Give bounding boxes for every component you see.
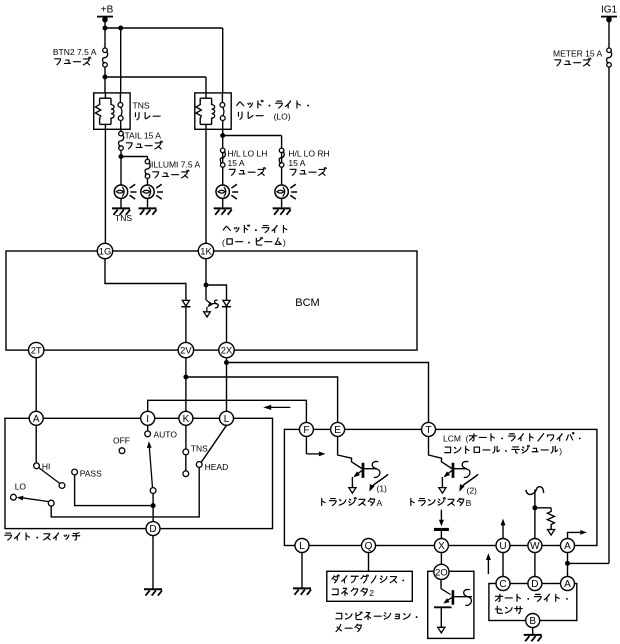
- svg-text:): ): [559, 446, 562, 456]
- svg-text:W: W: [530, 541, 540, 552]
- svg-text:OFF: OFF: [113, 436, 130, 446]
- svg-text:D: D: [531, 579, 538, 590]
- svg-text:TAIL 15 A: TAIL 15 A: [125, 130, 162, 140]
- svg-text:H/L LO RH: H/L LO RH: [288, 149, 329, 159]
- svg-text:F: F: [303, 425, 309, 436]
- svg-text:AUTO: AUTO: [154, 429, 178, 439]
- svg-text:2X: 2X: [221, 344, 233, 355]
- svg-text:): ): [283, 238, 286, 248]
- svg-text:I: I: [146, 414, 149, 425]
- svg-text:1K: 1K: [200, 245, 212, 256]
- svg-text:X: X: [438, 541, 445, 552]
- svg-text:15 A: 15 A: [288, 158, 305, 168]
- svg-text:H/L LO LH: H/L LO LH: [228, 149, 268, 159]
- svg-text:(LO): (LO): [274, 112, 291, 122]
- svg-text:Q: Q: [365, 541, 373, 552]
- svg-text:2T: 2T: [31, 344, 42, 355]
- svg-text:ILLUMI 7.5 A: ILLUMI 7.5 A: [151, 160, 200, 170]
- svg-text:A: A: [33, 414, 40, 425]
- svg-text:C: C: [499, 579, 506, 590]
- svg-text:15 A: 15 A: [228, 158, 245, 168]
- svg-text:B: B: [466, 498, 472, 508]
- svg-text:2: 2: [369, 588, 374, 598]
- svg-text:A: A: [564, 579, 571, 590]
- svg-text:1G: 1G: [99, 245, 112, 256]
- svg-text:(1): (1): [377, 484, 388, 494]
- svg-text:U: U: [499, 541, 506, 552]
- svg-text:(: (: [222, 238, 225, 248]
- svg-text:BCM: BCM: [295, 297, 319, 309]
- svg-text:METER 15 A: METER 15 A: [553, 49, 602, 59]
- svg-text:2V: 2V: [180, 344, 192, 355]
- svg-text:LO: LO: [15, 481, 27, 491]
- svg-text:IG1: IG1: [601, 5, 618, 16]
- svg-text:D: D: [149, 524, 156, 535]
- svg-text:A: A: [377, 498, 383, 508]
- svg-text:TNS: TNS: [133, 101, 150, 111]
- svg-text:T: T: [425, 425, 431, 436]
- svg-text:K: K: [183, 414, 190, 425]
- svg-text:A: A: [564, 541, 571, 552]
- svg-text:HI: HI: [42, 462, 51, 472]
- svg-text:HEAD: HEAD: [205, 462, 229, 472]
- svg-text:B: B: [529, 616, 536, 627]
- svg-text:L: L: [224, 414, 230, 425]
- svg-text:TNS: TNS: [191, 443, 208, 453]
- svg-text:+B: +B: [101, 5, 114, 16]
- svg-text:(: (: [465, 433, 468, 443]
- svg-text:E: E: [334, 425, 341, 436]
- svg-text:TNS: TNS: [115, 213, 132, 223]
- svg-text:2O: 2O: [435, 566, 448, 577]
- svg-text:BTN2 7.5 A: BTN2 7.5 A: [53, 47, 97, 57]
- svg-text:L: L: [299, 541, 305, 552]
- svg-text:LCM: LCM: [443, 433, 461, 443]
- svg-text:PASS: PASS: [80, 469, 102, 479]
- svg-text:(2): (2): [467, 486, 478, 496]
